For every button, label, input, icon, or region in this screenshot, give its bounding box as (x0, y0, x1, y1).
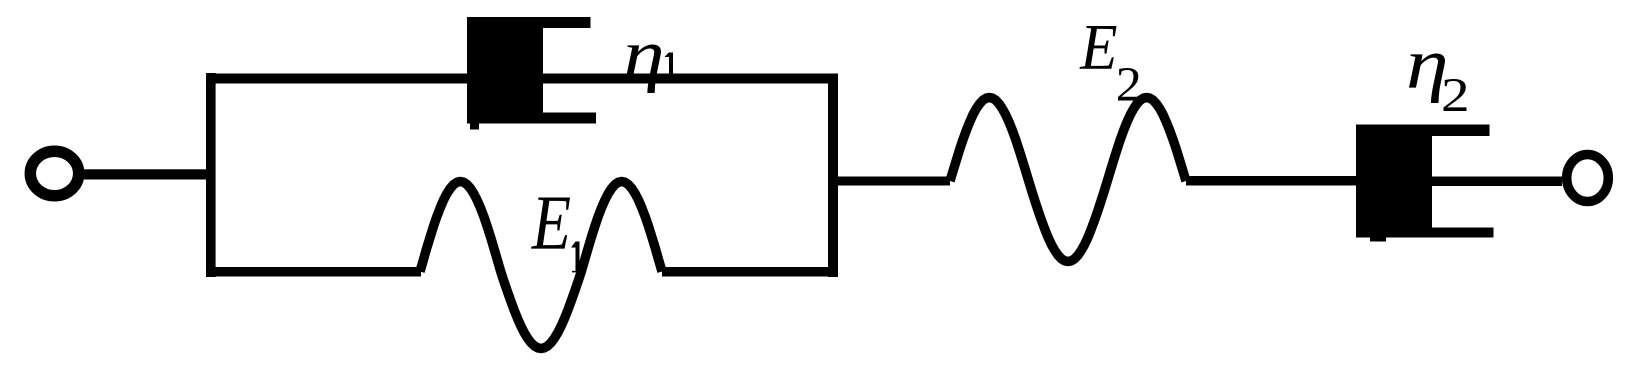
spring E1 (420, 182, 662, 349)
wire top branch right segment (543, 74, 838, 84)
wire top branch left segment (206, 74, 467, 84)
spring E2 (950, 98, 1186, 262)
dashpot D1 piston (467, 17, 543, 124)
wire left terminal to box (83, 169, 208, 179)
wire bottom branch left segment (206, 267, 421, 277)
dashpot D2 piston (1356, 125, 1432, 238)
wire dashpot D2 to right terminal (1432, 177, 1562, 187)
dashpot D1 cylinder top line (543, 17, 591, 28)
dashpot D2 cylinder bottom line (1432, 228, 1494, 238)
dashpot D2 bottom-left nub (1370, 238, 1386, 242)
right terminal circle (1567, 155, 1609, 202)
dashpot D2 cylinder top line (1432, 125, 1490, 137)
dashpot D1 cylinder bottom line (543, 113, 596, 124)
left terminal circle (30, 151, 78, 196)
label eta2 (1409, 53, 1445, 103)
label E2 (1079, 26, 1116, 69)
wire spring E2 to dashpot D2 (1186, 176, 1356, 186)
label E1 (531, 197, 570, 248)
label eta1 (626, 45, 661, 93)
box left vertical wire (206, 73, 216, 277)
label E2 subscript 2 (1118, 68, 1139, 101)
label eta1 subscript 1 (665, 52, 674, 76)
box right vertical wire (828, 74, 838, 278)
label eta2 subscript 2 (1444, 79, 1467, 111)
label E1 subscript 1 (571, 242, 580, 273)
dashpot D1 bottom-left nub (470, 124, 479, 130)
wire bottom branch right segment (662, 267, 838, 277)
wire box to spring E2 (838, 177, 950, 186)
